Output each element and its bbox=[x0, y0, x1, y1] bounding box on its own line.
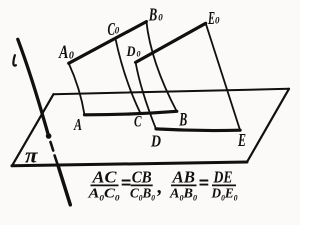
label E0 bbox=[207, 8, 220, 28]
plane pi bottom edge bbox=[12, 162, 247, 166]
equals sign 2 bbox=[200, 181, 209, 185]
svg-text:0: 0 bbox=[69, 50, 74, 61]
svg-text:AB: AB bbox=[172, 168, 195, 187]
formula fraction DE over D0E0 bbox=[211, 168, 238, 203]
svg-text:D: D bbox=[150, 132, 161, 151]
svg-text:D0E0: D0E0 bbox=[211, 187, 238, 203]
line l intersection dot with plane bbox=[46, 133, 52, 139]
plane pi left edge bbox=[12, 94, 54, 166]
label B0 bbox=[148, 5, 163, 25]
projection line B0-B bbox=[146, 22, 176, 112]
svg-text:D: D bbox=[126, 44, 136, 60]
formula fraction AC over A0C0 bbox=[87, 168, 119, 203]
svg-text:A: A bbox=[73, 115, 82, 134]
svg-text:DE: DE bbox=[213, 168, 233, 187]
svg-text:A0C0: A0C0 bbox=[87, 187, 119, 203]
plane pi right edge bbox=[247, 89, 289, 162]
svg-text:0: 0 bbox=[115, 26, 120, 36]
segment A0-B0 bbox=[69, 22, 147, 64]
svg-text:CB: CB bbox=[132, 168, 152, 187]
projection line A0-A bbox=[69, 63, 85, 115]
segment A-B on plane bbox=[85, 111, 177, 115]
svg-text:0: 0 bbox=[137, 50, 141, 59]
line l dash 2 bbox=[55, 156, 58, 165]
line l upper solid part bbox=[18, 39, 49, 135]
svg-text:B: B bbox=[148, 5, 157, 25]
formula fraction CB over C0B0 bbox=[130, 168, 155, 203]
label A0 bbox=[58, 42, 74, 63]
plane pi top edge bbox=[54, 89, 290, 94]
line l dash 1 bbox=[51, 142, 54, 151]
svg-text:E: E bbox=[207, 8, 215, 28]
label C0 bbox=[108, 19, 120, 39]
svg-text:0: 0 bbox=[215, 16, 220, 26]
svg-text:E: E bbox=[237, 130, 246, 150]
svg-text:AC: AC bbox=[91, 168, 117, 187]
line l lower solid part bbox=[58, 165, 70, 205]
projection line E0-E bbox=[206, 23, 240, 130]
formula fraction AB over A0B0 bbox=[169, 168, 197, 203]
svg-text:A: A bbox=[58, 42, 68, 63]
label l (script ell) bbox=[13, 55, 16, 65]
svg-text:C0B0: C0B0 bbox=[130, 187, 155, 203]
svg-text:C: C bbox=[134, 114, 142, 131]
projection line C0-C bbox=[116, 39, 141, 113]
label D0 bbox=[126, 44, 141, 60]
svg-text:0: 0 bbox=[158, 13, 163, 23]
svg-text:π: π bbox=[25, 143, 39, 168]
svg-text:,: , bbox=[157, 176, 163, 198]
equals sign 1 bbox=[122, 181, 131, 185]
svg-text:A0B0: A0B0 bbox=[169, 187, 197, 203]
svg-text:B: B bbox=[179, 110, 188, 131]
segment D0-E0 bbox=[136, 23, 206, 62]
projection line D0-D bbox=[136, 62, 156, 129]
segment D-E on plane bbox=[156, 129, 240, 131]
